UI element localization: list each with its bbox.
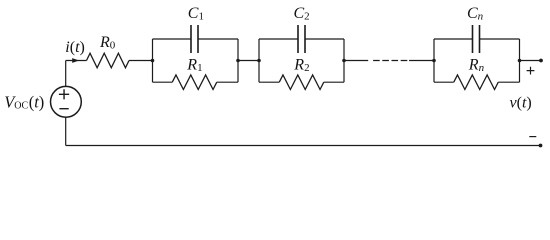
capacitor C1: [191, 25, 198, 53]
svg-text:C2: C2: [294, 5, 310, 23]
wire blockn right vertical: [519, 39, 521, 82]
svg-text:i(t): i(t): [65, 39, 85, 56]
svg-text:R0: R0: [99, 34, 116, 52]
resistor R1: [172, 75, 217, 90]
node blockn left: [432, 59, 436, 63]
svg-text:Rn: Rn: [468, 56, 485, 74]
node negative terminal: [539, 144, 543, 148]
wire block2 left vertical: [258, 39, 260, 82]
capacitor Cn: [473, 25, 480, 53]
wire block1 right vertical: [237, 39, 239, 82]
wire bottom return rail: [66, 145, 541, 147]
resistor R0: [87, 53, 130, 68]
wire blockn top rail: [434, 38, 520, 40]
wire block2 to dashed section: [344, 60, 368, 62]
node block2 right: [342, 59, 346, 63]
resistor R2: [279, 75, 324, 90]
wire block1 to block2: [238, 60, 259, 62]
wire block2 top rail: [259, 38, 344, 40]
plus sign output: [527, 67, 535, 75]
node block1 left: [151, 59, 155, 63]
svg-text:Cn: Cn: [467, 5, 484, 23]
node blockn right: [518, 59, 522, 63]
minus sign output: [529, 136, 536, 138]
wire block2 bottom rail: [259, 81, 344, 83]
wire blockn bottom rail: [434, 81, 520, 83]
resistor Rn: [454, 75, 499, 90]
wire main with current arrow: [66, 58, 87, 63]
node block1 right: [236, 59, 240, 63]
wire dashed continuation: [373, 60, 407, 62]
voltage source VOC: [51, 86, 82, 117]
wire block1 top rail: [153, 38, 239, 40]
node block2 left: [257, 59, 261, 63]
svg-text:v(t): v(t): [510, 95, 532, 112]
wire source top to main rail: [65, 61, 67, 87]
capacitor C2: [298, 25, 305, 53]
wire dashed section to blockn: [409, 60, 434, 62]
svg-text:C1: C1: [188, 5, 204, 23]
node positive terminal: [539, 59, 543, 63]
svg-text:R1: R1: [186, 56, 202, 74]
wire R0 to block1: [129, 60, 153, 62]
wire source bottom: [65, 117, 67, 145]
svg-text:VOC(t): VOC(t): [4, 92, 44, 111]
wire to positive terminal: [520, 60, 542, 62]
wire block1 bottom rail: [153, 81, 239, 83]
wire blockn left vertical: [433, 39, 435, 82]
svg-text:R2: R2: [293, 56, 309, 74]
wire block1 left vertical: [152, 39, 154, 82]
wire block2 right vertical: [343, 39, 345, 82]
